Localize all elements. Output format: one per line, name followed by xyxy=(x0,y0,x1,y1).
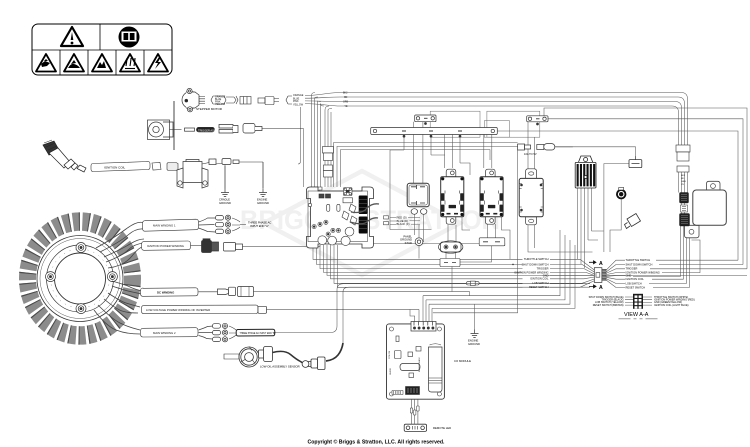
svg-text:SHUT DOWN SWITCH: SHUT DOWN SWITCH xyxy=(522,262,549,266)
right bundle connectors and labels xyxy=(676,145,690,172)
stepper connector label 1 xyxy=(211,96,292,105)
top 4 runs from stepper to right bundle xyxy=(305,93,688,146)
svg-text:MAIN WINDING 1: MAIN WINDING 1 xyxy=(153,224,176,228)
coil wire up xyxy=(298,107,301,164)
svg-text:LOB SWITCH: LOB SWITCH xyxy=(626,281,642,285)
svg-text:LOB SWITCH: LOB SWITCH xyxy=(532,281,548,285)
low oil sensor xyxy=(224,343,343,370)
connector right fan to right labels xyxy=(606,260,625,287)
horizontals to fuse row xyxy=(334,143,518,187)
svg-text:IGNITION COIL: IGNITION COIL xyxy=(104,166,126,170)
svg-text:GRB: GRB xyxy=(343,102,348,104)
low oil feed xyxy=(343,287,590,343)
svg-text:TRIGGER: TRIGGER xyxy=(626,267,638,271)
svg-text:RESET SWITCH: RESET SWITCH xyxy=(529,285,549,289)
rect boxes top xyxy=(430,111,480,137)
oil pressure switch xyxy=(616,188,626,200)
svg-text:TRIGGER: TRIGGER xyxy=(537,267,549,271)
svg-text:THREE PHASE AC INPUT END "B": THREE PHASE AC INPUT END "B" xyxy=(240,332,276,335)
breaker bottom wires xyxy=(414,214,423,258)
circuit breaker xyxy=(407,183,429,214)
LV connector xyxy=(258,306,419,313)
far right verticals xyxy=(497,108,747,269)
trigger drop xyxy=(303,129,305,188)
svg-text:INPUT END "A": INPUT END "A" xyxy=(250,224,269,228)
remote LED xyxy=(404,424,426,431)
receptacle 2 xyxy=(480,169,503,224)
svg-text:THREE PHASE AC: THREE PHASE AC xyxy=(248,220,271,224)
svg-text:RESET SWITCH: RESET SWITCH xyxy=(626,285,646,289)
mid-band 8 horizontals from PCB bottom xyxy=(313,245,747,287)
svg-text:GND: GND xyxy=(543,273,549,277)
warning triangle top xyxy=(61,27,83,46)
svg-text:LOW-VOLTAGE POWER WINDING OF I: LOW-VOLTAGE POWER WINDING OF INVERTER xyxy=(146,308,210,312)
connector A detail xyxy=(594,268,606,283)
svg-text:DC WINDING: DC WINDING xyxy=(157,290,174,294)
svg-text:GROUND: GROUND xyxy=(257,201,269,205)
svg-text:TRIGGER ASM: TRIGGER ASM xyxy=(198,129,216,133)
inline fuse on ignition coil line xyxy=(466,281,479,285)
right labels right stubs to verticals xyxy=(650,240,747,273)
CO module xyxy=(387,322,445,400)
engine/cradle ground drops xyxy=(225,162,263,189)
svg-text:CO MODULE: CO MODULE xyxy=(454,359,471,363)
svg-text:BOARD MARK: BOARD MARK xyxy=(418,357,421,372)
svg-text:YE: YE xyxy=(681,184,684,186)
svg-text:IGNITION POWER WINDING: IGNITION POWER WINDING xyxy=(147,244,184,248)
svg-text:IGNITION COIL: IGNITION COIL xyxy=(626,277,645,281)
svg-text:CO1234: CO1234 xyxy=(389,350,391,359)
receptacle 1 xyxy=(441,169,464,224)
ignition coil label xyxy=(91,162,178,172)
svg-text:GROUND: GROUND xyxy=(468,342,480,346)
svg-text:REMOTE LED: REMOTE LED xyxy=(433,426,451,430)
svg-text:RD: RD xyxy=(681,178,685,180)
svg-text:RESET SWITCH (BROWN): RESET SWITCH (BROWN) xyxy=(593,304,624,307)
coil body xyxy=(177,159,263,189)
svg-text:LOW-OIL ASSEMBLY SENSOR: LOW-OIL ASSEMBLY SENSOR xyxy=(260,364,300,368)
stepper motor xyxy=(182,88,205,112)
MW1 wires + ring pins xyxy=(199,218,216,232)
DC connector xyxy=(199,287,470,297)
svg-text:A: A xyxy=(599,285,603,291)
svg-text:MAIN WINDING 2: MAIN WINDING 2 xyxy=(153,331,176,335)
watermark xyxy=(240,171,500,275)
stator xyxy=(28,222,133,336)
winding label pills xyxy=(141,219,259,337)
svg-text:YELLOW: YELLOW xyxy=(215,103,226,106)
engine ground bottom xyxy=(471,330,479,338)
svg-text:GND: GND xyxy=(626,274,632,278)
svg-text:THROTTLE SWITCH: THROTTLE SWITCH xyxy=(524,257,549,261)
regulator drops xyxy=(578,188,592,264)
engine ground xyxy=(259,189,267,197)
inline connectors on bundle xyxy=(323,147,334,178)
verticals from bus bars down xyxy=(414,122,423,184)
svg-text:YE: YE xyxy=(345,106,349,108)
label fan to connector xyxy=(550,259,594,287)
inverter PCB xyxy=(307,187,374,248)
IPW connector xyxy=(191,239,321,253)
bus bars xyxy=(371,115,548,137)
cradle ground xyxy=(221,189,229,197)
voltage regulator xyxy=(575,156,596,188)
ECU module xyxy=(685,181,727,238)
svg-text:BK2: BK2 xyxy=(681,175,686,177)
svg-text:VIEW A-A: VIEW A-A xyxy=(624,312,649,318)
svg-text:Copyright © Briggs & Stratton,: Copyright © Briggs & Stratton, LLC. All … xyxy=(308,439,445,446)
view A-A pin block xyxy=(625,294,652,309)
svg-text:STUD: STUD xyxy=(405,241,412,245)
CO module feeds xyxy=(423,230,575,308)
ground lug oval xyxy=(439,241,463,253)
svg-text:SN888: SN888 xyxy=(390,368,392,375)
spark plug cap xyxy=(629,156,642,168)
svg-text:RD: RD xyxy=(344,97,348,99)
svg-text:SHUT DOWN SWITCH: SHUT DOWN SWITCH xyxy=(626,262,653,266)
manual icon xyxy=(119,27,140,48)
svg-text:IGNITION COIL: IGNITION COIL xyxy=(530,277,549,281)
svg-text:YELLOW: YELLOW xyxy=(293,103,304,106)
wires CO to LED xyxy=(410,399,419,424)
plug boot right xyxy=(625,214,641,229)
relay breaker xyxy=(519,169,543,225)
svg-text:GROUND: GROUND xyxy=(219,201,231,205)
svg-text:10A TO 5V: 10A TO 5V xyxy=(524,152,537,156)
DC long wire joins xyxy=(469,292,471,296)
label column left xyxy=(514,257,549,289)
svg-text:IGNITION COIL (LIGHT BLUE): IGNITION COIL (LIGHT BLUE) xyxy=(654,304,689,307)
MW2 wires + pins xyxy=(199,326,214,339)
svg-text:BK2: BK2 xyxy=(343,93,348,95)
svg-text:STEPPER MOTOR: STEPPER MOTOR xyxy=(196,107,223,111)
three phase B label xyxy=(229,326,276,339)
labels on top runs xyxy=(343,93,348,109)
svg-text:A: A xyxy=(599,261,603,267)
warning label xyxy=(32,24,172,75)
trigger asm xyxy=(148,101,304,150)
stud link xyxy=(419,225,456,259)
svg-text:BLACK (F): BLACK (F) xyxy=(397,222,410,226)
ignition coil row xyxy=(43,140,86,172)
IPW wire end xyxy=(319,245,321,247)
fuse row xyxy=(518,144,573,150)
svg-text:GRB: GRB xyxy=(681,181,686,183)
stator lead wires xyxy=(94,222,144,334)
label column right xyxy=(626,258,660,289)
PCB top feed bundle xyxy=(312,96,321,188)
svg-text:THROTTLE SWITCH: THROTTLE SWITCH xyxy=(626,258,651,262)
hazard triangles row xyxy=(36,54,168,72)
